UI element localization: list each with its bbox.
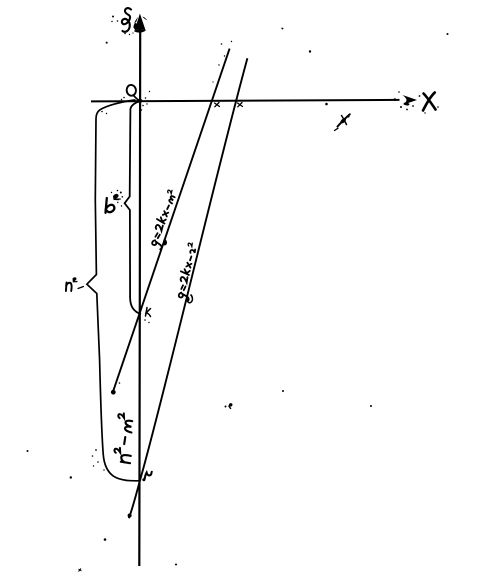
point mark at line2 / y-axis crossing (142, 471, 153, 482)
stray dot mid right of brace (282, 390, 284, 392)
n^2 - m^2 rotated label near brace bottom (114, 413, 134, 463)
inner bracket (b^2 span from origin to line1 y-intercept) (125, 101, 141, 314)
x-axis (91, 100, 400, 102)
equation label on line 2 (174, 242, 203, 301)
line 1 (upper-left slanted line) (112, 49, 229, 394)
specks near X label (419, 95, 439, 114)
specks near origin (121, 91, 150, 105)
specks near line 1 top (212, 41, 232, 83)
stray dot above x-axis right (325, 103, 328, 106)
b^2 label (106, 198, 115, 213)
n^2 label (66, 283, 72, 292)
specks below k mark (144, 319, 150, 323)
stray speck top middle-right (282, 28, 284, 30)
specks near bracket kink (117, 198, 122, 207)
small x mark at line 2 x-intercept (238, 103, 243, 107)
stray speck left of y label (106, 42, 108, 44)
line 2 bottom end blob (128, 514, 132, 518)
line 2 (lower-right slanted line) (129, 58, 248, 518)
stray dot upper middle (309, 50, 311, 52)
tick from n^2 to brace kink (78, 287, 84, 289)
stray x mark bottom left corner (79, 569, 82, 572)
y-axis arrowhead (133, 14, 147, 33)
specks along brace top hook (101, 105, 144, 115)
stray dot right middle (370, 405, 372, 407)
stray mark comma-9 right of y-axis (225, 403, 233, 409)
blob on line 1 near label start (163, 239, 167, 246)
specks left of y label (111, 16, 133, 36)
specks near brace bottom curve (92, 449, 105, 471)
b^2 superscript scribble (111, 190, 123, 201)
point mark at line1 / y-axis crossing (146, 308, 151, 317)
blob loop on line 2 near label start (188, 295, 193, 303)
stray dot left middle bottom (27, 450, 29, 452)
stray dot below y-axis bottom (175, 564, 177, 566)
y axis label (handwritten y) (122, 8, 131, 32)
stray dot top right (447, 33, 449, 35)
x-axis arrowhead (394, 91, 418, 110)
O origin label (126, 84, 139, 100)
stray dot bottom left (104, 538, 107, 541)
X axis label (handwritten X) (423, 93, 436, 111)
outer brace (n^2 span from origin to line2 y-intercept) (87, 100, 140, 481)
stray dot lower left (70, 476, 72, 478)
scribble x mark below x-axis near (344,120) (335, 114, 350, 130)
n^2 superscript (73, 277, 78, 282)
small x mark at line 1 x-intercept (215, 103, 220, 107)
blob at origin crossing (137, 99, 142, 103)
y-axis (138, 28, 141, 566)
equation label on line 1 (147, 189, 182, 249)
line 1 bottom end blob (111, 382, 120, 394)
